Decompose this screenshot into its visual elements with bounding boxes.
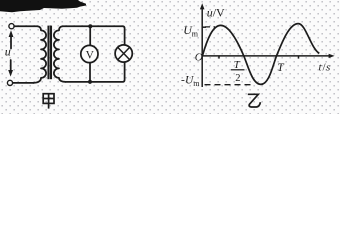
svg-text:m: m: [192, 29, 199, 38]
svg-text:u: u: [5, 45, 11, 59]
svg-text:/V: /V: [213, 5, 225, 19]
svg-text:O: O: [195, 51, 203, 63]
svg-text:2: 2: [235, 73, 240, 84]
svg-text:s: s: [326, 62, 330, 74]
svg-text:T: T: [234, 59, 241, 71]
svg-text:V: V: [86, 49, 95, 61]
svg-text:m: m: [193, 79, 200, 88]
